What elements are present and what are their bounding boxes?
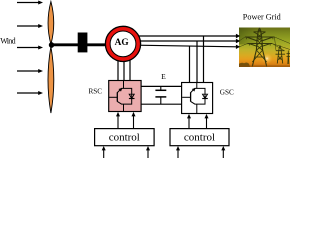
arrowhead to grid a: [236, 34, 240, 38]
svg-text:Power Grid: Power Grid: [243, 13, 281, 22]
control box 2: [170, 129, 229, 146]
svg-text:Wind: Wind: [0, 37, 15, 46]
control to GSC arrow 1: [187, 114, 191, 129]
turbine blade lower: [48, 47, 54, 113]
stator wire b: [137, 40, 237, 42]
power grid photo: [239, 28, 290, 68]
stator wire c: [137, 45, 237, 47]
svg-text:E: E: [161, 72, 166, 81]
IGBT inside RSC: [109, 81, 135, 112]
hub: [49, 42, 54, 48]
wind arrow 5: [17, 91, 43, 95]
wires: [239, 37, 290, 51]
GSC branch wire c: [189, 46, 191, 82]
rotor wire a: [117, 50, 119, 81]
svg-text:control: control: [109, 131, 140, 143]
far mast: [287, 51, 291, 65]
capacitor E: [155, 86, 166, 104]
wind arrow 2: [17, 24, 43, 28]
rotor wire c: [129, 50, 131, 81]
turbine blade upper: [48, 2, 54, 45]
control to RSC arrow 2: [132, 112, 136, 129]
IGBT inside GSC: [182, 83, 208, 114]
GSC branch wire b: [196, 41, 198, 83]
right pylon: [277, 46, 282, 64]
svg-text:RSC: RSC: [89, 87, 103, 95]
svg-text:AG: AG: [115, 38, 129, 48]
input arrow control1 b: [146, 146, 150, 158]
generator AG outer ring: [105, 26, 140, 61]
shaft wire: [52, 43, 107, 46]
wind arrow 4: [17, 69, 43, 73]
control box 1: [95, 129, 155, 146]
stator wire a: [136, 35, 237, 37]
main pylon: [252, 28, 266, 67]
converter GSC box: [182, 83, 213, 114]
input arrow control2 b: [221, 146, 225, 158]
arrowhead to grid c: [236, 45, 240, 49]
wind arrow 3: [17, 45, 43, 49]
generator AG inner: [110, 31, 136, 57]
arrowhead to grid b: [236, 39, 240, 43]
bushes bottom of photo: [239, 63, 250, 67]
svg-text:GSC: GSC: [220, 89, 234, 97]
control to GSC arrow 2: [205, 114, 209, 129]
converter RSC box: [109, 81, 141, 112]
wind arrow 1: [17, 0, 43, 4]
DC bus wire bottom: [141, 103, 182, 105]
GSC branch wire a: [203, 36, 205, 83]
svg-text:control: control: [184, 131, 215, 143]
gearbox: [78, 33, 88, 53]
input arrow control2 a: [176, 146, 180, 158]
input arrow control1 a: [102, 146, 106, 158]
control to RSC arrow 1: [116, 112, 120, 129]
rotor wire b: [123, 50, 125, 81]
DC bus wire top: [141, 85, 182, 87]
